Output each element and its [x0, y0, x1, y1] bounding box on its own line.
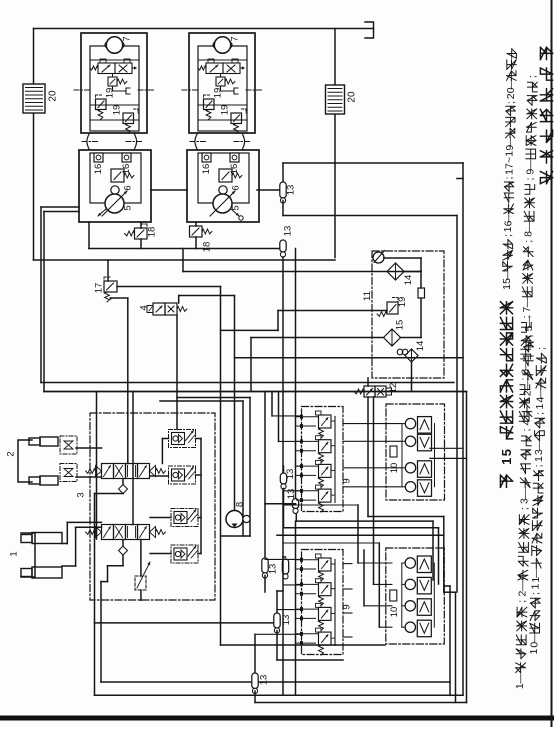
svg-text:13: 13 [259, 675, 270, 686]
svg-text:20: 20 [48, 90, 59, 102]
svg-text:;: ; [523, 240, 535, 243]
svg-text:;: ; [527, 75, 539, 78]
svg-text:7: 7 [122, 36, 133, 41]
svg-text:14: 14 [403, 275, 414, 286]
svg-text:5: 5 [499, 449, 514, 456]
svg-text:;: ; [519, 378, 531, 381]
svg-text:;: ; [536, 347, 548, 350]
svg-text:~: ~ [504, 157, 516, 163]
svg-text:1: 1 [534, 404, 546, 410]
svg-text:2: 2 [6, 451, 17, 456]
svg-text:16: 16 [93, 164, 104, 175]
svg-text:—: — [517, 580, 529, 591]
svg-text:1: 1 [499, 458, 514, 465]
svg-text:18: 18 [202, 242, 213, 253]
svg-text:15: 15 [395, 320, 406, 331]
svg-text:5: 5 [123, 205, 134, 210]
svg-text:19: 19 [397, 297, 408, 308]
svg-text:1: 1 [502, 226, 514, 232]
svg-text:4: 4 [139, 305, 150, 310]
svg-text:—: — [520, 359, 532, 370]
svg-text:6: 6 [231, 185, 242, 190]
svg-text:;: ; [524, 178, 536, 181]
svg-text:1: 1 [501, 284, 513, 290]
svg-text:13: 13 [283, 226, 294, 237]
svg-text:1: 1 [9, 551, 20, 556]
svg-text:;: ; [519, 507, 531, 510]
svg-text:—: — [533, 440, 545, 451]
svg-text:17: 17 [94, 283, 105, 294]
svg-text:—: — [521, 296, 533, 307]
svg-text:13: 13 [268, 564, 279, 575]
svg-text:8: 8 [235, 502, 246, 507]
svg-text:;: ; [521, 315, 533, 318]
svg-text:20: 20 [347, 91, 358, 103]
svg-text:18: 18 [147, 227, 158, 238]
svg-text:4: 4 [521, 419, 533, 425]
svg-text:;: ; [502, 234, 514, 237]
svg-text:13: 13 [281, 615, 292, 626]
svg-text:6: 6 [123, 185, 134, 190]
svg-text:19: 19 [213, 88, 224, 99]
svg-text:1: 1 [528, 649, 540, 655]
svg-text:—: — [523, 221, 535, 232]
svg-text:13: 13 [286, 185, 297, 196]
svg-text:;: ; [503, 177, 515, 180]
svg-text:;: ; [521, 429, 533, 432]
svg-text:;: ; [534, 412, 546, 415]
svg-text:;: ; [516, 600, 528, 603]
svg-text:—: — [514, 673, 526, 684]
svg-text:1: 1 [533, 456, 545, 462]
svg-text:1: 1 [504, 151, 516, 157]
svg-text:13: 13 [285, 469, 296, 480]
svg-text:1: 1 [530, 584, 542, 590]
svg-text:;: ; [533, 464, 545, 467]
svg-text:16: 16 [201, 164, 212, 175]
svg-text:—: — [528, 632, 540, 643]
svg-text:14: 14 [415, 341, 426, 352]
svg-text:—: — [535, 387, 547, 398]
svg-text:—: — [519, 488, 531, 499]
svg-text:;: ; [530, 592, 542, 595]
svg-text:9: 9 [342, 604, 353, 609]
svg-text:9: 9 [342, 478, 353, 483]
svg-text:10: 10 [389, 607, 400, 618]
svg-text:—: — [525, 159, 537, 170]
svg-text:;: ; [505, 101, 517, 104]
svg-text:3: 3 [76, 492, 87, 497]
svg-text:19: 19 [112, 105, 123, 116]
svg-text:—: — [530, 567, 542, 578]
svg-text:7: 7 [230, 36, 241, 41]
svg-text:19: 19 [105, 88, 116, 99]
svg-text:19: 19 [220, 105, 231, 116]
svg-text:11: 11 [362, 291, 373, 301]
